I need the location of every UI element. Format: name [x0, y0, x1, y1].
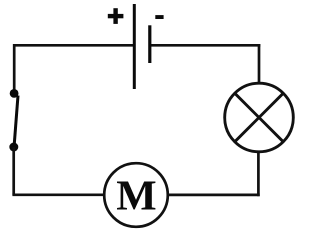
wire: bottom-right horizontal (motor to bottom-right corner): [168, 194, 260, 197]
battery B1 short plate (-): [148, 25, 151, 63]
battery B1 minus label: [155, 15, 163, 19]
node: switch bottom contact dot: [9, 143, 18, 152]
lamp L1 cross stroke 2: [235, 93, 284, 142]
wire: left vertical lower (switch bottom to bottom-left corner): [12, 147, 15, 195]
lamp L1 cross stroke 1: [235, 93, 284, 142]
wire: right vertical upper (top-right corner to lamp top): [258, 44, 261, 83]
switch S1 blade: [14, 96, 18, 146]
node: switch top contact dot: [10, 89, 19, 98]
lamp L1 circle: [225, 83, 294, 152]
wire: bottom-left horizontal (corner to motor): [12, 193, 104, 196]
motor M1 label "M": [117, 181, 155, 209]
battery B1 long plate (+): [133, 4, 136, 89]
wire: left vertical upper (corner down to switch top contact): [13, 44, 16, 94]
wire: right vertical lower (lamp bottom to corner): [257, 153, 260, 196]
wire: top-left horizontal (battery + to left corner): [13, 44, 134, 47]
wire: top-right horizontal (battery - to right corner): [150, 44, 260, 47]
motor M1 circle: [104, 163, 168, 227]
battery B1 plus label: [108, 8, 124, 24]
